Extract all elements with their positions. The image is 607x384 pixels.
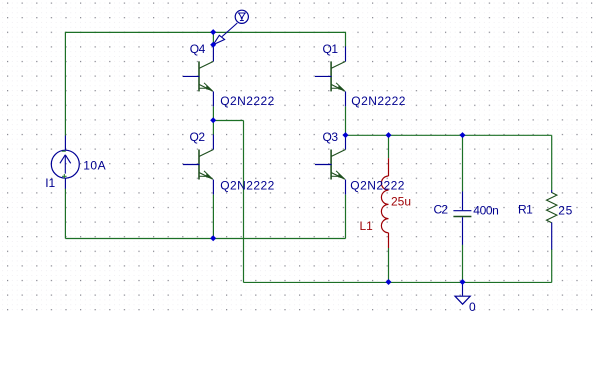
wire left rail upper: [64, 32, 66, 136]
junction top-rail/probe column: [210, 29, 216, 35]
transistor Q1: [315, 46, 346, 106]
transistor Q4: [183, 45, 214, 107]
wire C2 branch lower: [462, 245, 464, 283]
wire output node row: [346, 134, 552, 136]
wire Q4 emitter to node: [212, 107, 214, 121]
wire bottom-left rail: [65, 238, 345, 240]
junction C2 bottom/ground: [460, 279, 466, 285]
svg-text:Q2: Q2: [190, 130, 206, 144]
svg-text:Q2N2222: Q2N2222: [350, 179, 405, 193]
svg-text:400n: 400n: [473, 203, 498, 217]
wire probe column: [212, 32, 214, 44]
svg-text:Q2N2222: Q2N2222: [220, 94, 275, 108]
transistor Q3: [315, 135, 346, 195]
svg-text:Q3: Q3: [323, 130, 339, 144]
wire node to Q2 collector: [212, 121, 214, 135]
wire L1 branch lower: [388, 248, 390, 282]
svg-text:C2: C2: [434, 202, 449, 216]
transistor Q2: [183, 135, 214, 195]
wire branch down to bottom rail: [243, 121, 245, 283]
svg-text:25u: 25u: [391, 194, 411, 208]
wire bottom output rail: [244, 281, 552, 283]
svg-text:L1: L1: [360, 219, 374, 233]
svg-text:10A: 10A: [83, 159, 106, 173]
inductor L1: [381, 158, 388, 248]
svg-text:25: 25: [558, 204, 573, 218]
wire Q1 emitter to output node: [345, 107, 347, 136]
junction C2 top: [460, 132, 466, 138]
svg-text:I1: I1: [45, 176, 55, 190]
wire L1 branch upper: [388, 135, 390, 158]
voltage probe marker V: [213, 10, 248, 44]
ground 0: [455, 282, 470, 304]
wire Q3 emitter down: [345, 195, 347, 239]
wire Q1 collector to top rail: [345, 32, 347, 47]
wire Q2 emitter down: [212, 195, 214, 239]
junction Q2 emitter/bottom rail: [210, 235, 216, 241]
svg-text:Q2N2222: Q2N2222: [351, 94, 406, 108]
wire R1 branch upper: [551, 135, 553, 190]
junction Q4/Q2 node: [210, 117, 216, 123]
wire left rail lower: [64, 189, 66, 239]
svg-text:Q1: Q1: [323, 42, 339, 56]
svg-text:Q2N2222: Q2N2222: [220, 179, 275, 193]
current source I1: [51, 136, 79, 189]
junction probe tip: [210, 42, 216, 48]
resistor R1: [547, 190, 557, 250]
junction L1 bottom: [386, 279, 392, 285]
junction L1 top: [386, 132, 392, 138]
svg-text:Q4: Q4: [190, 42, 206, 56]
wire C2 branch upper: [462, 135, 464, 191]
wire top rail: [65, 31, 345, 33]
capacitor C2: [453, 192, 471, 245]
wire R1 branch lower: [551, 249, 553, 282]
wire branch right of Q4/Q2 node: [213, 120, 243, 122]
junction output node: [343, 132, 349, 138]
svg-text:R1: R1: [518, 202, 533, 216]
svg-text:0: 0: [469, 300, 476, 314]
